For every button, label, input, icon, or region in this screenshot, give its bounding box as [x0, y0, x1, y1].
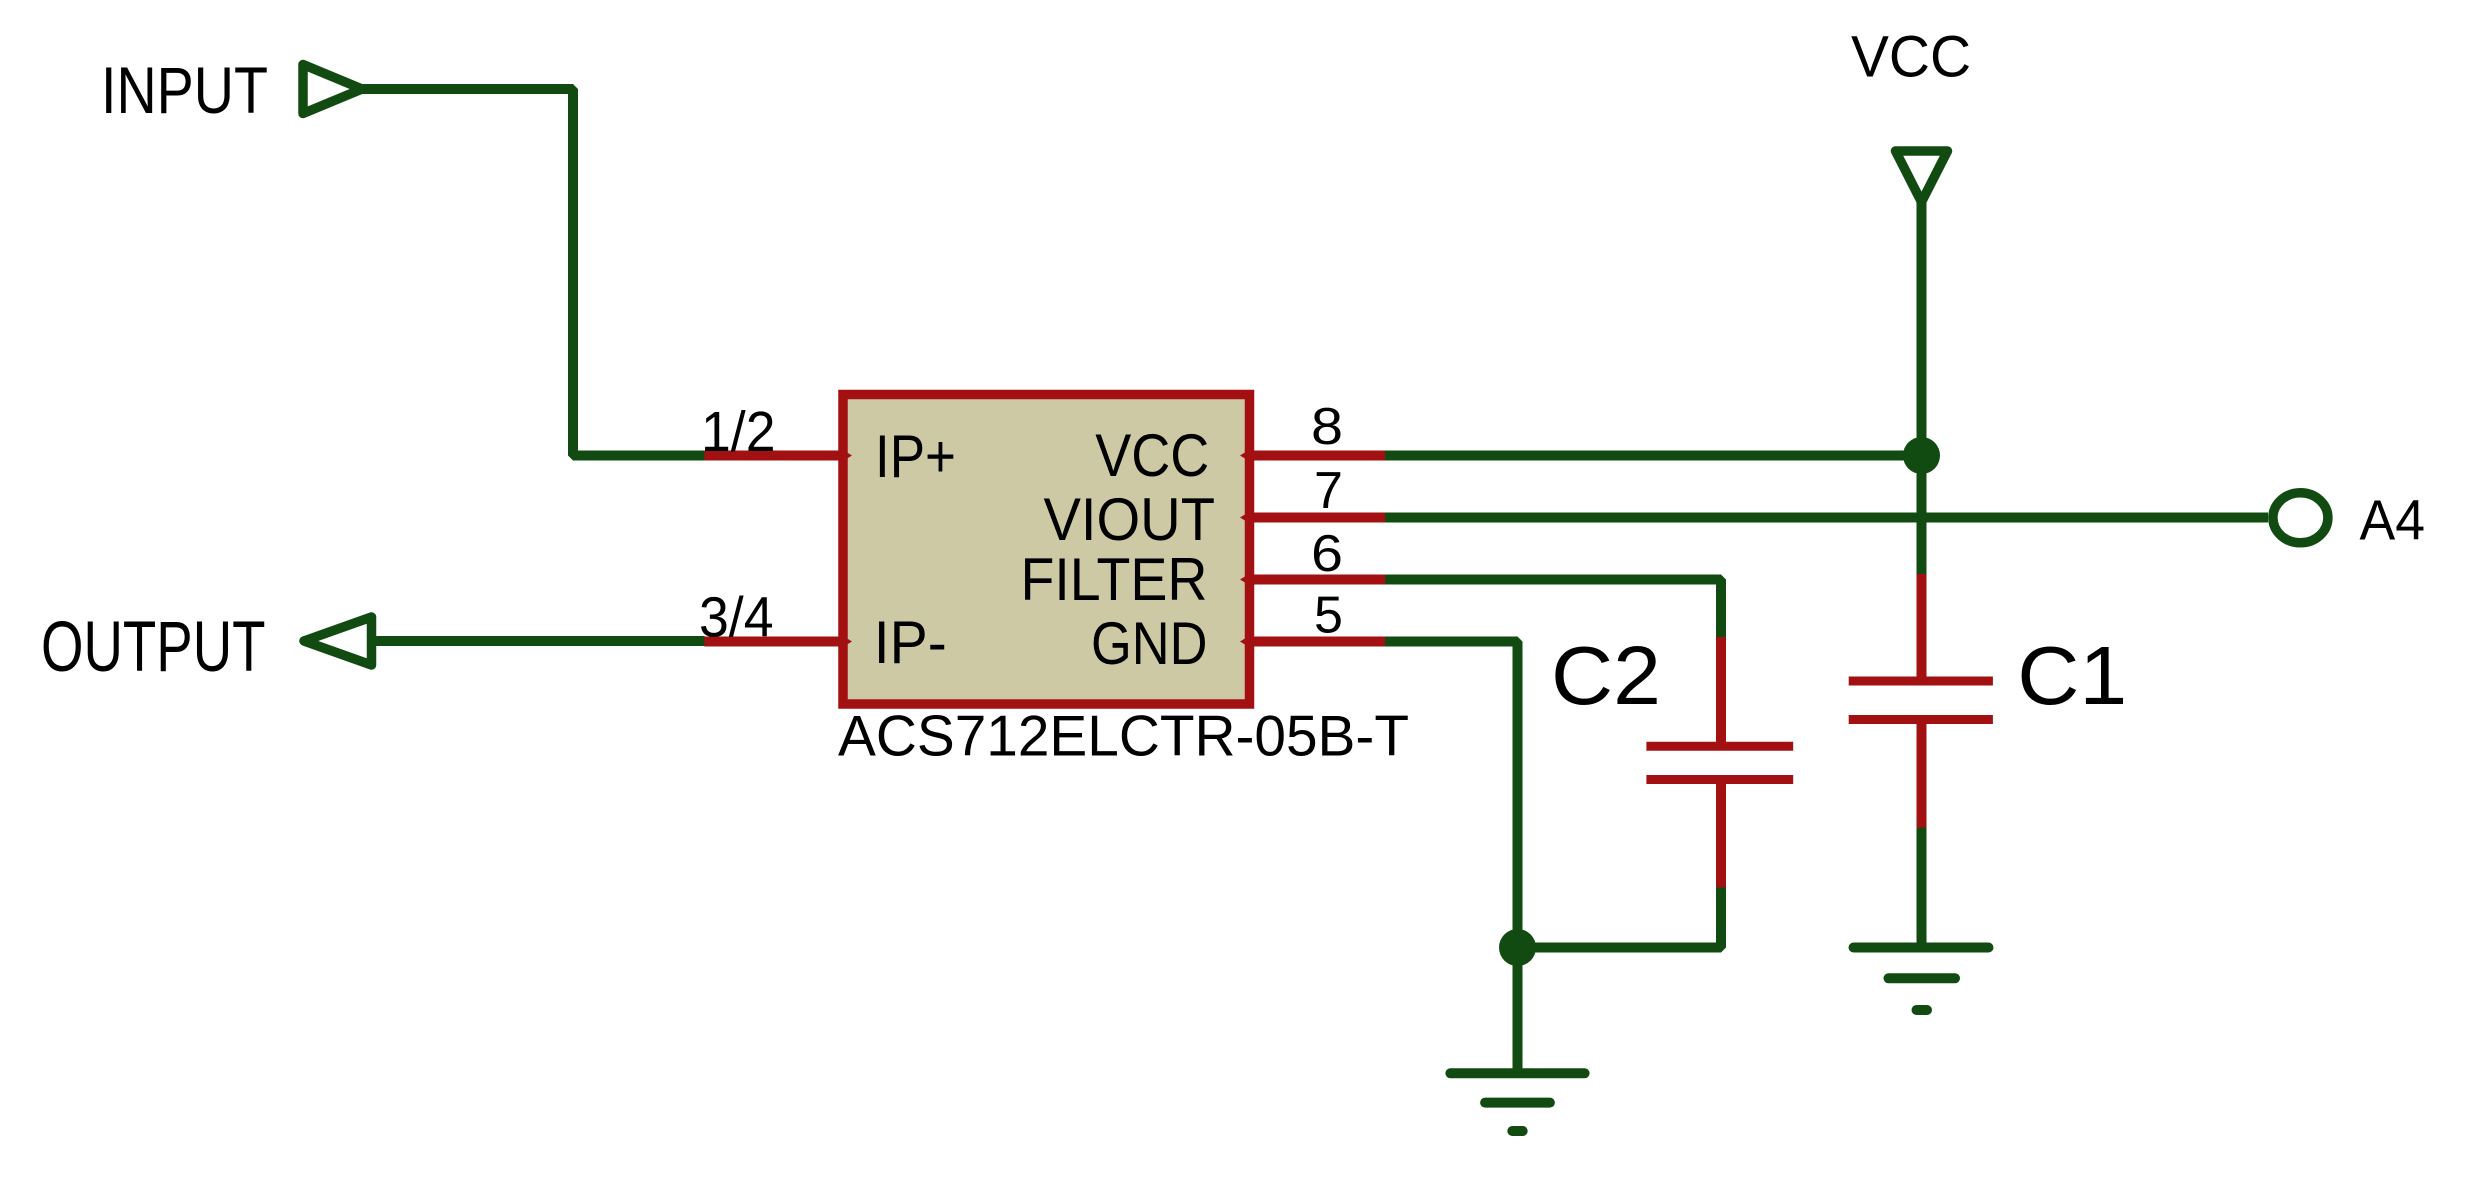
svg-text:VCC: VCC [1095, 422, 1209, 489]
svg-text:IP-: IP- [874, 609, 947, 676]
svg-text:GND: GND [1091, 610, 1208, 677]
svg-text:VCC: VCC [1851, 25, 1971, 90]
svg-text:A4: A4 [2360, 488, 2426, 552]
svg-text:1/2: 1/2 [701, 400, 776, 464]
svg-text:VIOUT: VIOUT [1044, 486, 1216, 553]
svg-text:3/4: 3/4 [699, 586, 774, 650]
svg-text:IP+: IP+ [875, 423, 956, 490]
svg-text:OUTPUT: OUTPUT [41, 608, 266, 687]
svg-text:C1: C1 [2017, 629, 2127, 722]
svg-text:7: 7 [1314, 462, 1343, 520]
svg-text:C2: C2 [1551, 629, 1661, 722]
svg-text:INPUT: INPUT [101, 53, 268, 127]
svg-text:8: 8 [1311, 398, 1343, 456]
svg-text:6: 6 [1311, 525, 1343, 583]
svg-text:5: 5 [1314, 587, 1343, 645]
svg-text:FILTER: FILTER [1021, 546, 1208, 613]
svg-text:ACS712ELCTR-05B-T: ACS712ELCTR-05B-T [838, 705, 1409, 769]
